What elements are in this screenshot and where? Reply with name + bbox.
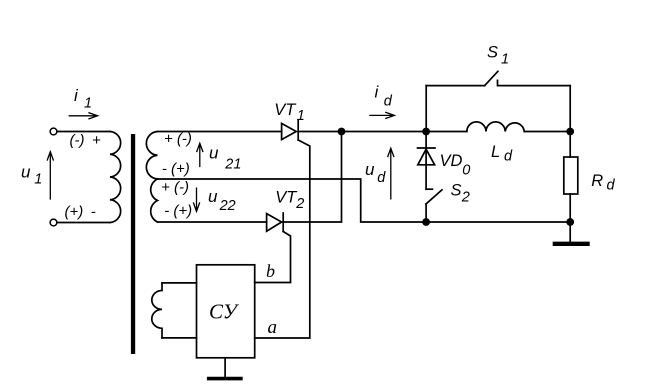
label S1 — [487, 44, 509, 68]
label VT1 — [274, 101, 305, 124]
label CY — [209, 300, 240, 324]
VT2 cathode bar — [282, 213, 284, 232]
label id — [375, 83, 393, 110]
wire Ld to node — [524, 131, 570, 133]
label Ld — [491, 143, 513, 164]
label u21 — [209, 144, 241, 173]
svg-text:(+) -: (+) - — [65, 204, 96, 221]
inductor Ld — [467, 122, 525, 132]
svg-text:R: R — [591, 172, 603, 190]
label VD0 — [440, 152, 471, 179]
wire S1 left — [426, 85, 485, 87]
svg-text:1: 1 — [34, 172, 42, 188]
wire primary top — [57, 131, 110, 133]
label ud — [365, 160, 386, 186]
wire CY winding top — [162, 282, 197, 284]
svg-text:(-) +: (-) + — [70, 132, 101, 149]
diode VD0 triangle — [418, 149, 435, 165]
svg-text:S: S — [487, 44, 498, 62]
svg-text:S: S — [451, 181, 462, 199]
node junction VD0 top — [422, 128, 430, 136]
wire primary bottom — [57, 222, 110, 224]
arrow u1 — [47, 152, 53, 199]
wire winding2 bottom to VT2 anode — [158, 221, 267, 223]
svg-text:i: i — [74, 86, 79, 105]
wire VT2 cathode to top node — [283, 132, 341, 223]
wire center tap — [158, 179, 571, 222]
svg-text:d: d — [384, 94, 393, 110]
svg-text:СУ: СУ — [209, 300, 240, 324]
thyristor VT1 — [282, 123, 297, 139]
svg-text:VT: VT — [275, 189, 298, 207]
switch S1 right riser — [569, 86, 571, 132]
terminal top primary — [50, 128, 57, 135]
label - (+) w22 bottom — [164, 203, 192, 220]
label b — [266, 261, 275, 281]
label S2 — [451, 181, 470, 205]
switch S1 contact — [498, 80, 571, 85]
switch S2 blade — [426, 190, 442, 204]
thyristor VT2 — [267, 214, 282, 232]
svg-text:d: d — [377, 170, 386, 186]
VT2 gate lead — [255, 232, 291, 283]
control unit CY box — [197, 265, 255, 358]
label (+) - primary bottom — [65, 204, 96, 221]
svg-text:u: u — [208, 187, 218, 206]
resistor Rd — [564, 157, 578, 194]
node junction at VT outputs — [338, 128, 346, 136]
node junction bottom rail at VD0 — [422, 218, 430, 226]
node junction bottom rail at Rd — [566, 218, 574, 226]
CY sync winding — [152, 283, 162, 338]
svg-text:u: u — [21, 163, 31, 182]
wire node to Rd — [569, 132, 571, 158]
label + (-) w21 top — [164, 131, 192, 148]
svg-text:1: 1 — [84, 96, 92, 112]
svg-text:1: 1 — [501, 51, 509, 67]
label u1 — [21, 163, 42, 188]
svg-text:b: b — [266, 261, 275, 281]
svg-text:+ (-): + (-) — [161, 179, 189, 196]
ground CY — [209, 377, 241, 381]
svg-text:u: u — [365, 160, 375, 179]
wire S2 to bottom rail — [425, 204, 427, 222]
ground right — [555, 242, 588, 246]
svg-text:- (+): - (+) — [164, 203, 192, 220]
switch S1 blade — [485, 71, 498, 85]
secondary winding w21 — [146, 132, 157, 180]
svg-text:- (+): - (+) — [162, 161, 190, 178]
svg-text:22: 22 — [219, 198, 236, 214]
arrow i1 — [69, 113, 97, 119]
transformer core — [131, 134, 135, 354]
label Rd — [591, 172, 615, 193]
svg-text:L: L — [491, 143, 500, 161]
wire VT1 cathode to node — [298, 131, 467, 133]
secondary winding w22 — [151, 179, 158, 222]
svg-text:i: i — [375, 83, 380, 102]
svg-text:+ (-): + (-) — [164, 131, 192, 148]
wire VD0 anode lead — [425, 132, 427, 190]
switch S1 branch left riser — [425, 86, 427, 132]
svg-text:VT: VT — [274, 101, 297, 119]
svg-text:d: d — [607, 177, 616, 193]
svg-text:0: 0 — [462, 163, 470, 179]
arrow ud — [388, 148, 394, 199]
svg-text:1: 1 — [297, 108, 305, 124]
arrow id — [370, 112, 395, 118]
wire to ground — [569, 222, 571, 242]
terminal bottom primary — [50, 219, 57, 226]
node junction Rd top — [566, 128, 574, 136]
switch S2 contact tick — [426, 188, 432, 190]
svg-text:2: 2 — [461, 190, 470, 206]
svg-text:a: a — [268, 317, 278, 338]
wire CY to ground — [224, 358, 226, 377]
label + (-) w22 top — [161, 179, 189, 196]
arrow u21 — [197, 143, 203, 166]
label VT2 — [275, 189, 304, 212]
svg-text:VD: VD — [440, 152, 463, 170]
label - (+) w21 bottom — [162, 161, 190, 178]
diode VD0 cathode bar — [418, 147, 436, 149]
arrow u22 — [194, 188, 200, 211]
label i1 — [74, 86, 92, 112]
VT1 gate lead — [255, 140, 310, 338]
VT1 cathode bar — [297, 120, 299, 140]
wire Rd to bottom rail — [569, 194, 571, 222]
svg-text:21: 21 — [224, 156, 241, 172]
wire CY winding bottom — [162, 337, 197, 339]
label (-) + primary top — [70, 132, 101, 149]
svg-text:2: 2 — [295, 196, 304, 212]
primary winding w1 — [110, 132, 121, 223]
svg-text:d: d — [504, 148, 513, 164]
wire winding1 top to VT1 anode — [158, 131, 282, 133]
label a — [268, 317, 278, 338]
label u22 — [208, 187, 236, 214]
svg-text:u: u — [209, 144, 219, 163]
